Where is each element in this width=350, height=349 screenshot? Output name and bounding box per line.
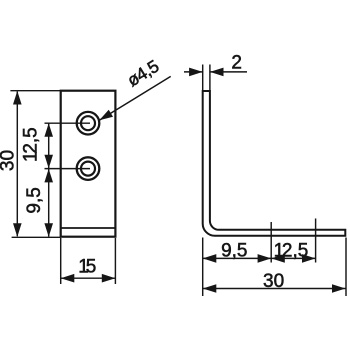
extension line top (dim 30) bbox=[10, 90, 60, 92]
arrowhead 2 right bbox=[210, 68, 224, 77]
side view L-profile outline bbox=[203, 91, 346, 236]
extension line bottom-right (dim 30) bbox=[345, 238, 347, 297]
arrowhead 9,5 bottom bbox=[44, 223, 53, 237]
extension line bottom (dim 30) bbox=[12, 236, 61, 238]
dimension chain line (12,5 / 9,5) bbox=[48, 123, 50, 236]
dimension line 9,5 (side view) bbox=[203, 257, 272, 259]
arrowhead 12,5 left bbox=[271, 254, 285, 263]
svg-text:9,5: 9,5 bbox=[24, 187, 45, 213]
svg-text:9,5: 9,5 bbox=[221, 241, 247, 262]
dimension line 30 (left) bbox=[16, 92, 18, 237]
dimension line 30 (side view) bbox=[203, 288, 346, 290]
dimension line 12,5 (side view) bbox=[271, 257, 315, 259]
extension line 15 right bbox=[114, 238, 116, 284]
centerline hole H1 bbox=[45, 122, 91, 124]
arrowhead 30 left (side view) bbox=[203, 284, 217, 293]
arrowhead 15 right bbox=[102, 274, 116, 283]
arrowhead 15 left bbox=[61, 274, 75, 283]
hole H2 outer circle bbox=[77, 157, 100, 180]
extension line at 12,5 right (crosses leg) bbox=[315, 219, 317, 263]
svg-text:2: 2 bbox=[231, 53, 242, 74]
leader line diameter 4,5 bbox=[100, 76, 171, 120]
arrowhead 2 left bbox=[189, 68, 203, 77]
svg-text:30: 30 bbox=[0, 150, 19, 171]
arrowhead 30 bottom bbox=[13, 223, 22, 237]
extension line 15 left bbox=[60, 238, 62, 284]
dimension line 15 bbox=[61, 277, 116, 279]
arrowhead 9,5 left bbox=[203, 254, 217, 263]
extension line bottom-left (side view dims) bbox=[202, 238, 204, 297]
arrowhead 12,5 top bbox=[44, 123, 53, 137]
hole H2 inner circle bbox=[81, 162, 95, 176]
svg-text:30: 30 bbox=[263, 271, 284, 292]
svg-text:15: 15 bbox=[78, 257, 96, 278]
side view extension lines (dim 2) bbox=[202, 65, 204, 92]
leader arrowhead bbox=[99, 110, 113, 121]
arrowhead 9,5 right bbox=[258, 254, 272, 263]
hole H1 outer circle bbox=[77, 112, 100, 135]
arrowhead 12,5 bottom bbox=[44, 155, 53, 169]
front view plate outline bbox=[61, 91, 116, 237]
dimension line 2 right segment bbox=[210, 71, 247, 73]
arrowhead 9,5 top bbox=[44, 169, 53, 183]
hole H1 inner circle bbox=[81, 116, 95, 130]
bend line (front view) bbox=[61, 227, 116, 229]
arrowhead 30 top bbox=[13, 91, 22, 105]
arrowhead 30 right (side view) bbox=[332, 284, 346, 293]
centerline hole H2 bbox=[45, 168, 91, 170]
extension line at 9,5/12,5 boundary (crosses leg) bbox=[270, 222, 272, 263]
svg-text:12,5: 12,5 bbox=[21, 127, 42, 162]
dimension line 2 left segment bbox=[184, 71, 203, 73]
arrowhead 12,5 right bbox=[302, 254, 316, 263]
svg-text:12,5: 12,5 bbox=[274, 241, 309, 262]
